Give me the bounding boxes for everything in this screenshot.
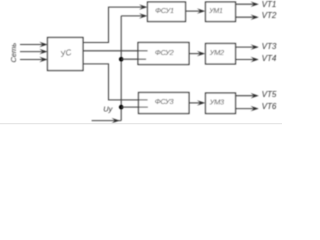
wire US out2 to FSU2 input1 xyxy=(83,50,148,52)
wire FSU2 to UM2 xyxy=(189,53,200,55)
block FSU2 xyxy=(138,43,189,65)
svg-text:УМ2: УМ2 xyxy=(209,48,224,57)
svg-text:Сеть: Сеть xyxy=(9,43,18,63)
wire bus to FSU3 input2 xyxy=(121,106,148,108)
svg-text:ФСУ1: ФСУ1 xyxy=(155,6,174,15)
wire UM3 out VT6 xyxy=(236,108,254,110)
wire UM2 out VT4 xyxy=(236,59,254,61)
wire bus to FSU2 input2 xyxy=(121,58,146,60)
svg-text:УМ1: УМ1 xyxy=(208,8,223,15)
scan artifact line bottom xyxy=(0,123,282,124)
svg-text:VT6: VT6 xyxy=(262,102,277,111)
svg-text:ФСУ2: ФСУ2 xyxy=(155,48,174,57)
wire mains input 1 xyxy=(20,44,43,46)
wire FSU1 to UM1 xyxy=(185,10,200,12)
block FSU1 xyxy=(148,2,186,22)
wire mains input 3 xyxy=(20,59,43,61)
svg-text:VT2: VT2 xyxy=(262,11,277,20)
wire Uu input arrow xyxy=(92,120,122,122)
wire mains input 2 xyxy=(20,51,43,53)
svg-text:VT5: VT5 xyxy=(262,90,277,99)
wire UM3 out VT5 xyxy=(236,95,254,97)
block US xyxy=(48,38,84,71)
svg-text:VT1: VT1 xyxy=(262,0,277,9)
wire UM1 out VT2 xyxy=(236,16,254,18)
node junction FSU2 tap xyxy=(119,57,124,62)
wire US out1 to FSU1 input1 xyxy=(83,7,142,42)
block UM3 xyxy=(206,93,236,114)
svg-text:ФСУ3: ФСУ3 xyxy=(155,97,175,106)
svg-text:УМ3: УМ3 xyxy=(209,98,225,107)
svg-text:VT3: VT3 xyxy=(262,42,277,51)
wire FSU3 to UM3 xyxy=(189,102,200,104)
wire bus to FSU1 input2 xyxy=(121,15,142,17)
wire Uu bus vertical xyxy=(120,16,122,121)
svg-text:Uу: Uу xyxy=(103,104,113,113)
node junction FSU3 tap xyxy=(119,105,124,110)
wire UM1 out VT1 xyxy=(236,3,254,5)
block UM2 xyxy=(206,44,236,65)
block FSU3 xyxy=(139,93,190,114)
wire UM2 out VT3 xyxy=(236,46,254,48)
block UM1 xyxy=(206,2,236,22)
svg-text:VT4: VT4 xyxy=(262,54,277,63)
wire US out3 to FSU3 input1 xyxy=(83,64,148,100)
